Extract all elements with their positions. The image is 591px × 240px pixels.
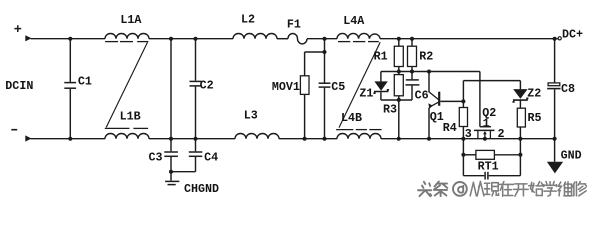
svg-text:C4: C4 <box>204 151 218 165</box>
svg-text:C8: C8 <box>561 82 575 96</box>
svg-text:R3: R3 <box>383 103 397 117</box>
svg-text:DCIN: DCIN <box>5 79 33 93</box>
svg-text:Q1: Q1 <box>430 110 444 124</box>
svg-text:L4B: L4B <box>341 111 362 125</box>
svg-text:L2: L2 <box>241 12 255 26</box>
svg-text:C3: C3 <box>149 151 163 165</box>
svg-text:L3: L3 <box>244 109 258 123</box>
svg-text:RT1: RT1 <box>478 159 499 173</box>
svg-text:R2: R2 <box>419 50 433 64</box>
svg-text:R4: R4 <box>443 121 457 135</box>
svg-text:DC+: DC+ <box>562 28 583 42</box>
svg-text:C2: C2 <box>200 79 214 93</box>
svg-text:F1: F1 <box>287 17 301 31</box>
svg-text:GND: GND <box>561 149 582 163</box>
svg-text:C5: C5 <box>331 80 345 94</box>
svg-text:1: 1 <box>483 116 490 130</box>
svg-text:C6: C6 <box>415 88 429 102</box>
svg-text:L4A: L4A <box>343 14 365 28</box>
svg-text:2: 2 <box>498 127 505 141</box>
svg-text:L1A: L1A <box>120 13 142 27</box>
svg-text:3: 3 <box>465 127 472 141</box>
svg-text:MOV1: MOV1 <box>272 80 300 94</box>
svg-text:R5: R5 <box>528 111 542 125</box>
svg-text:Z2: Z2 <box>527 86 541 100</box>
svg-text:Z1: Z1 <box>359 86 373 100</box>
svg-text:C1: C1 <box>78 75 92 89</box>
svg-text:L1B: L1B <box>120 109 141 123</box>
svg-text:CHGND: CHGND <box>184 182 219 196</box>
svg-text:R1: R1 <box>374 50 388 64</box>
